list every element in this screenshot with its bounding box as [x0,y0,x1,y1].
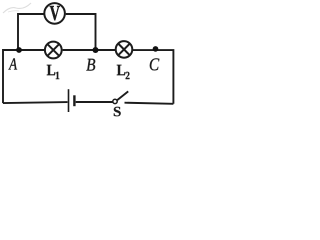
label L2 letter L [117,65,125,75]
switch S pivot circle [113,99,117,103]
wire: middle rail L1 to L2 [63,49,115,51]
label L1 subscript 1 [56,72,59,79]
label L2 subscript 2 [126,72,130,79]
wire: battery to switch [76,101,113,103]
wire: middle rail left segment (left rail corner to lamp L1) [3,50,44,103]
node B junction dot [93,47,99,53]
switch S blade [117,91,128,100]
node label C [150,58,159,70]
battery long plate (+) [68,89,70,112]
voltmeter letter V [50,6,60,20]
lamp L2 circle with cross [116,41,133,58]
wire: bottom rail left to battery [3,102,68,103]
wire: voltmeter right to node B vertical [66,14,96,50]
node C junction dot [153,46,159,52]
wire: top-left branch from node A up to voltmeter [18,14,44,50]
wire: switch to bottom-right corner [125,103,174,104]
voltmeter U1 circle [44,3,65,24]
node label B [86,59,95,71]
node label A [8,58,17,69]
wire: middle rail L2 to right corner, down right rail [133,50,174,104]
label L1 letter L [47,65,55,75]
lamp L1 circle with cross [45,42,62,59]
label S [114,107,121,116]
node A junction dot [16,47,22,53]
battery short plate (-) [73,95,75,106]
faint scan smudge top-left [3,3,31,13]
